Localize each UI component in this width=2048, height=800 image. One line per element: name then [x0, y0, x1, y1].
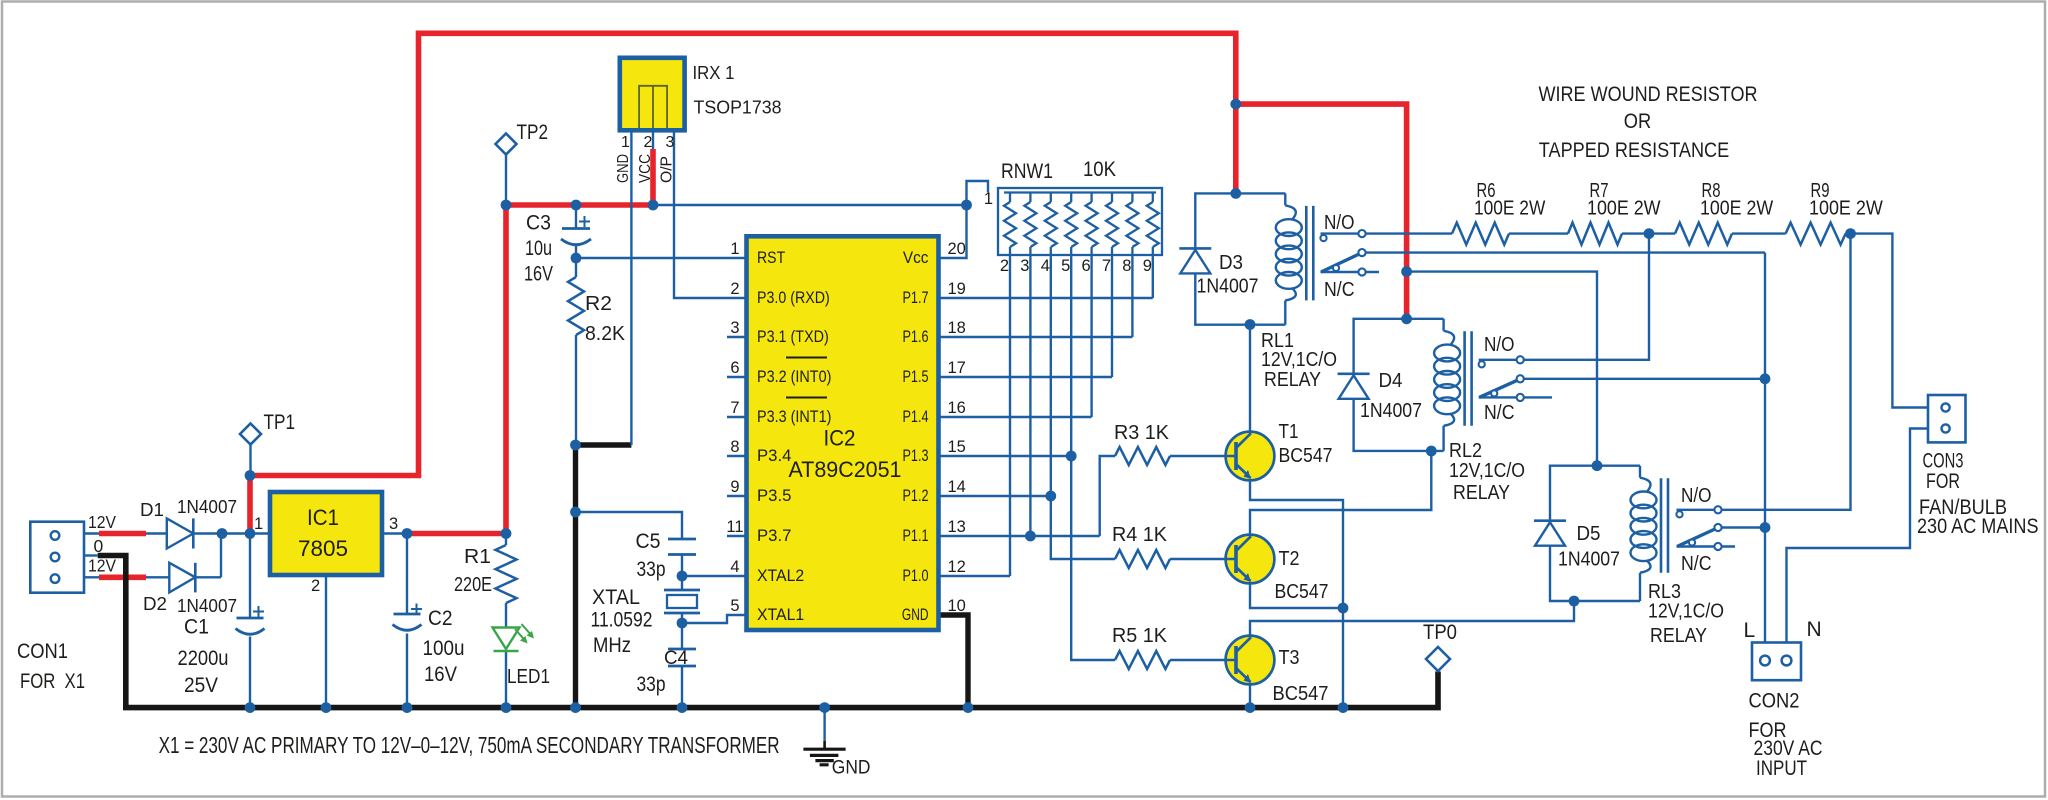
- svg-text:1: 1: [254, 515, 263, 533]
- wire: RL2 pole to L bus: [1524, 378, 1765, 380]
- svg-text:12V: 12V: [88, 556, 116, 576]
- wire: IRX pin3 O/P to IC2 P3.0 pin2: [674, 130, 747, 298]
- svg-text:2: 2: [644, 134, 653, 151]
- wire: RL1 N/O to R6-R9 chain: [1321, 234, 1929, 408]
- capacitor C4: [637, 648, 697, 696]
- capacitor C3: [524, 212, 591, 286]
- svg-text:P3.4: P3.4: [757, 447, 791, 465]
- wire: C3 node to IC2 RST pin1: [576, 257, 747, 259]
- junction node P1.2/RNW4: [1045, 491, 1056, 502]
- svg-text:WIRE WOUND RESISTOR: WIRE WOUND RESISTOR: [1539, 82, 1758, 106]
- svg-text:RELAY: RELAY: [1453, 482, 1510, 504]
- junction node D1/D2 cathodes: [217, 528, 228, 539]
- relay RL3 with diode D5: [1534, 466, 1724, 647]
- wire: T1 emitter to emitter bus: [1250, 480, 1343, 707]
- junction node RL3 bottom: [1569, 596, 1580, 607]
- svg-text:12V,1C/O: 12V,1C/O: [1449, 460, 1525, 482]
- wire: RL2 coil bottom to T2 collector: [1250, 451, 1431, 535]
- svg-text:BC547: BC547: [1275, 581, 1329, 603]
- junction node RNW1 common 5V: [961, 200, 972, 211]
- resistor R1 220E: [454, 545, 517, 603]
- svg-text:4: 4: [730, 558, 739, 576]
- junction node P1.3/RNW5: [1066, 451, 1077, 462]
- wire: D1 cathode to IC1 pin1: [193, 532, 270, 534]
- wire: IC2 P3.4 pin8 stub: [727, 455, 747, 457]
- junction node TP2: [501, 200, 512, 211]
- wire 5V: IC1 output to C2 node and up to TP2 node: [407, 205, 506, 534]
- junction node RL2 pole/L bus: [1760, 373, 1771, 384]
- resistor R7 100E 2W: [1568, 180, 1661, 245]
- connector CON1: [17, 512, 116, 693]
- svg-text:33p: 33p: [637, 558, 666, 581]
- note: wire wound resistor heading: [1539, 82, 1758, 162]
- svg-text:BC547: BC547: [1273, 683, 1329, 705]
- svg-text:100E 2W: 100E 2W: [1809, 198, 1883, 220]
- wire: R2 leads: [575, 258, 577, 445]
- svg-text:3: 3: [1020, 257, 1029, 275]
- svg-text:2: 2: [311, 577, 320, 595]
- wire 12V: CON1 pin3 red segment: [99, 574, 146, 580]
- svg-text:P3.5: P3.5: [757, 487, 791, 505]
- wire: IRX pin1 GND drop: [630, 130, 632, 445]
- resistor R4 1K: [1112, 524, 1170, 568]
- wire: R3 to T1 base: [1170, 455, 1225, 457]
- svg-text:P1.1: P1.1: [903, 527, 929, 545]
- wire: P1.2 row to RNW pin4 and down to R4: [939, 258, 1116, 559]
- junction node R2/IRX ground: [570, 440, 581, 451]
- capacitor C2: [393, 604, 465, 687]
- svg-text:20: 20: [948, 240, 966, 258]
- svg-text:TP2: TP2: [517, 120, 549, 144]
- svg-text:3: 3: [666, 134, 675, 151]
- wire: RL2 N/O up to R7/R8 junction: [1479, 234, 1649, 360]
- svg-text:N/O: N/O: [1681, 485, 1712, 507]
- junction node IC2 ground: [963, 702, 974, 713]
- transistor T1 BC547: [1226, 421, 1333, 480]
- svg-text:16: 16: [948, 399, 966, 417]
- svg-text:220E: 220E: [454, 574, 492, 596]
- svg-text:100u: 100u: [423, 637, 465, 660]
- junction node ground rail/R2: [570, 702, 581, 713]
- wire: R1 to LED1 to ground: [505, 534, 507, 708]
- svg-text:RST: RST: [757, 249, 785, 267]
- svg-text:0: 0: [94, 536, 104, 556]
- junction node P1.1/RNW3: [1025, 531, 1036, 542]
- svg-text:6: 6: [1082, 257, 1091, 275]
- wire: TP1 stem: [249, 445, 251, 476]
- wire: RL1 pole to L bus: [1366, 253, 1765, 643]
- resistor R2 8.2K: [568, 277, 626, 345]
- voltage regulator IC1 7805: [254, 492, 398, 595]
- wire 5V: TP2 node to IRX VCC: [506, 149, 653, 205]
- wire: RL1 coil bottom to T1 collector: [1249, 325, 1251, 432]
- svg-text:C4: C4: [664, 648, 688, 669]
- svg-text:8: 8: [730, 438, 739, 456]
- wire: C5 to XTAL2 pin4: [682, 555, 747, 591]
- junction node R7/R8 junction: [1644, 228, 1655, 239]
- svg-text:R1: R1: [464, 546, 491, 568]
- svg-text:XTAL2: XTAL2: [757, 567, 804, 585]
- wire: GND symbol stem: [823, 708, 825, 741]
- svg-text:P1.0: P1.0: [903, 567, 929, 585]
- wire: P1.5 to RNW pin7: [939, 258, 1113, 377]
- svg-text:VCC: VCC: [637, 154, 654, 183]
- svg-text:1: 1: [984, 190, 993, 208]
- junction node C4 ground: [677, 702, 688, 713]
- svg-text:230 AC MAINS: 230 AC MAINS: [1917, 515, 2039, 538]
- svg-text:10K: 10K: [1083, 158, 1116, 181]
- junction node RL2 bottom: [1426, 446, 1437, 457]
- junction node RL3 pole/L bus: [1760, 522, 1771, 533]
- svg-text:P1.5: P1.5: [903, 368, 929, 386]
- wire: IC2 P3.3 pin7 stub: [727, 416, 747, 418]
- wire: RL3 coil bottom to T3 collector: [1250, 601, 1574, 636]
- svg-text:FOR: FOR: [1926, 470, 1960, 493]
- svg-text:CON1: CON1: [17, 640, 68, 663]
- junction node TP1: [245, 470, 256, 481]
- svg-text:RNW1: RNW1: [1001, 160, 1053, 183]
- diode D2: [143, 563, 237, 616]
- svg-text:P1.4: P1.4: [903, 408, 929, 426]
- junction node RL3 top: [1592, 460, 1603, 471]
- svg-text:16V: 16V: [524, 263, 553, 286]
- svg-text:7: 7: [1102, 257, 1111, 275]
- svg-text:15: 15: [948, 438, 966, 456]
- svg-text:Vcc: Vcc: [903, 249, 929, 267]
- wire: C2 branch: [406, 534, 408, 708]
- resistor network RNW1 10K: [984, 158, 1162, 275]
- svg-text:D2: D2: [143, 593, 167, 614]
- svg-text:5: 5: [730, 597, 739, 615]
- svg-text:1N4007: 1N4007: [177, 496, 237, 517]
- svg-text:100E 2W: 100E 2W: [1474, 198, 1545, 220]
- wire 12V branch: to RL2 top: [1236, 104, 1407, 319]
- svg-text:D5: D5: [1577, 523, 1601, 545]
- svg-text:RELAY: RELAY: [1650, 625, 1707, 647]
- svg-text:C1: C1: [184, 616, 209, 639]
- svg-text:7: 7: [730, 399, 739, 417]
- svg-text:N/C: N/C: [1484, 402, 1515, 424]
- svg-text:33p: 33p: [637, 673, 666, 696]
- junction node RL2 top: [1401, 313, 1412, 324]
- svg-text:P3.3 (INT1): P3.3 (INT1): [757, 408, 831, 426]
- svg-text:D1: D1: [140, 499, 164, 520]
- svg-text:XTAL1: XTAL1: [757, 606, 804, 624]
- svg-text:1N4007: 1N4007: [177, 595, 237, 616]
- transistor T3 BC547: [1226, 636, 1329, 705]
- svg-text:N/C: N/C: [1324, 279, 1355, 301]
- junction node XTAL2: [677, 571, 688, 582]
- svg-text:3: 3: [730, 319, 739, 337]
- wire 12V rail: TP1 junction up-over to relays: [250, 33, 1236, 475]
- svg-text:TP1: TP1: [264, 410, 296, 434]
- wire: P1.6 to RNW pin8: [939, 258, 1133, 337]
- junction node emitter bus: [1338, 603, 1349, 614]
- svg-text:8: 8: [1122, 257, 1131, 275]
- wire: RL2 N/C stub: [1479, 396, 1552, 398]
- junction node C2 top: [402, 528, 413, 539]
- svg-text:5: 5: [1061, 257, 1070, 275]
- svg-text:2: 2: [1000, 257, 1009, 275]
- wire: C3 leads: [575, 205, 577, 258]
- junction node C3 top: [571, 200, 582, 211]
- ground GND symbol: [803, 741, 870, 779]
- svg-text:12: 12: [948, 558, 966, 576]
- junction node C2 ground: [402, 702, 413, 713]
- svg-text:1N4007: 1N4007: [1197, 276, 1259, 298]
- svg-text:19: 19: [948, 280, 966, 298]
- test point TP1: [240, 410, 295, 445]
- junction node IC1 input: [245, 528, 256, 539]
- wire: P1.4 to RNW pin6: [939, 258, 1092, 417]
- connector CON3: [1917, 395, 2039, 538]
- svg-text:TP0: TP0: [1423, 620, 1457, 644]
- svg-text:1N4007: 1N4007: [1360, 400, 1422, 422]
- svg-text:7805: 7805: [298, 536, 348, 561]
- svg-text:17: 17: [948, 359, 966, 377]
- svg-text:1N4007: 1N4007: [1558, 549, 1620, 571]
- svg-text:10: 10: [948, 597, 966, 615]
- svg-text:AT89C2051: AT89C2051: [789, 457, 902, 482]
- svg-text:T2: T2: [1279, 548, 1300, 570]
- svg-text:P3.1 (TXD): P3.1 (TXD): [757, 328, 829, 346]
- svg-text:9: 9: [1143, 257, 1152, 275]
- wire ground: R2/IRX GND drop: [576, 445, 632, 708]
- wire: P1.7 to RNW pin9: [939, 258, 1153, 298]
- svg-text:2200u: 2200u: [178, 647, 229, 670]
- svg-text:P3.2 (INT0): P3.2 (INT0): [757, 368, 831, 386]
- svg-text:13: 13: [948, 518, 966, 536]
- wire: IC1 pin3 output row: [382, 532, 407, 534]
- wire: CON2 N to CON3 bottom pin: [1787, 429, 1929, 643]
- junction node R9 output: [1845, 228, 1856, 239]
- junction node IRX VCC: [648, 200, 659, 211]
- svg-text:O/P: O/P: [659, 156, 676, 183]
- junction node C5 ground branch: [570, 507, 581, 518]
- svg-text:C5: C5: [636, 530, 661, 553]
- wire: CON1 pin2 0V stub: [83, 554, 98, 556]
- wire: IC2 P3.1 pin3 stub: [727, 336, 747, 338]
- junction node 12V split: [1230, 99, 1241, 110]
- capacitor C1: [178, 606, 265, 697]
- wire ground: CON1 0V to ground rail to TP0: [98, 556, 1438, 708]
- junction node GND symbol: [819, 702, 830, 713]
- resistor R5 1K: [1112, 625, 1170, 669]
- svg-text:IC1: IC1: [307, 505, 339, 530]
- svg-text:12V: 12V: [88, 512, 116, 532]
- svg-text:P1.7: P1.7: [903, 289, 929, 307]
- relay RL2 with diode D4: [1338, 319, 1525, 504]
- svg-text:3: 3: [389, 515, 398, 533]
- svg-text:N/C: N/C: [1681, 553, 1712, 575]
- resistor R6 100E 2W: [1452, 180, 1545, 245]
- LED LED1: [493, 624, 551, 688]
- svg-text:FOR X1: FOR X1: [20, 670, 85, 693]
- wire 5V: TP2 node to RNW1 common: [653, 204, 967, 206]
- wire: P1.3 row to RNW pin5 and down to R5: [939, 258, 1116, 660]
- wire: CON1 pin3 12V row: [83, 576, 169, 578]
- junction node LED1 ground: [501, 702, 512, 713]
- svg-text:P3.0 (RXD): P3.0 (RXD): [757, 289, 830, 307]
- svg-text:N: N: [1807, 618, 1822, 641]
- svg-text:R3 1K: R3 1K: [1114, 422, 1170, 444]
- svg-text:9: 9: [730, 478, 739, 496]
- svg-text:BC547: BC547: [1279, 445, 1333, 467]
- wire: IC2 P3.2 pin6 stub: [727, 376, 747, 378]
- wire 12V: TP1 junction down to IC1 input node: [247, 476, 253, 534]
- test point TP2: [496, 120, 549, 155]
- junction node RL1 bottom: [1245, 319, 1256, 330]
- wire: IC2 Vcc pin20 to RNW1 pin1: [939, 181, 989, 258]
- wire: CON1 pin1 12V row: [83, 532, 167, 534]
- svg-text:N/O: N/O: [1324, 212, 1355, 234]
- wire: RL3 pole to L bus: [1722, 526, 1765, 528]
- svg-text:6: 6: [730, 359, 739, 377]
- svg-text:R2: R2: [585, 293, 612, 315]
- svg-text:4: 4: [1041, 257, 1050, 275]
- wire: node to C1 and ground: [249, 534, 251, 708]
- svg-text:P3.7: P3.7: [757, 527, 791, 545]
- wire: T3 emitter to ground rail: [1249, 684, 1251, 707]
- svg-text:RL2: RL2: [1449, 440, 1482, 462]
- wire: C5 top to ground column: [576, 512, 683, 539]
- svg-text:11.0592: 11.0592: [591, 609, 653, 632]
- resistor R3 1K: [1114, 422, 1170, 465]
- wire ground: IC2 pin10 GND to rail: [939, 615, 969, 708]
- wire: R5 to T3 base: [1170, 659, 1226, 661]
- capacitor C5: [636, 530, 697, 581]
- wire: IC2 P3.7 pin11 stub: [727, 535, 747, 537]
- crystal XTAL 11.0592MHz: [591, 586, 701, 657]
- junction node T3 emitter ground: [1245, 702, 1256, 713]
- svg-text:T3: T3: [1279, 647, 1300, 669]
- wire: T2 emitter to emitter bus: [1250, 583, 1343, 608]
- svg-text:C3: C3: [526, 212, 551, 235]
- svg-text:D3: D3: [1219, 252, 1243, 274]
- svg-text:P1.2: P1.2: [903, 487, 929, 505]
- svg-text:18: 18: [948, 319, 966, 337]
- junction node RST: [571, 253, 582, 264]
- wire: C4 bottom to ground rail: [681, 667, 683, 708]
- wire: IRX pin2 stub: [652, 130, 654, 149]
- wire 12V branch: to RL3 top: [1407, 272, 1597, 466]
- svg-text:C2: C2: [428, 607, 453, 630]
- wire: D2 cathode up to D1 node: [195, 534, 221, 578]
- svg-text:100E 2W: 100E 2W: [1700, 198, 1773, 220]
- svg-text:P1.3: P1.3: [903, 447, 929, 465]
- svg-text:GND: GND: [615, 154, 632, 183]
- svg-text:IC2: IC2: [824, 426, 856, 451]
- wire: P1.0 to RNW pin2: [939, 258, 1011, 576]
- svg-text:IRX 1: IRX 1: [693, 62, 735, 83]
- svg-text:25V: 25V: [184, 674, 218, 697]
- wire: IC1 pin2 to ground rail: [325, 575, 327, 708]
- svg-text:P1.6: P1.6: [903, 328, 929, 346]
- svg-text:100E 2W: 100E 2W: [1587, 198, 1661, 220]
- wire: TP2 stem: [505, 154, 507, 205]
- svg-text:10u: 10u: [525, 237, 552, 260]
- svg-text:XTAL: XTAL: [592, 586, 640, 609]
- junction node C1 ground: [245, 702, 256, 713]
- svg-text:TAPPED RESISTANCE: TAPPED RESISTANCE: [1539, 138, 1729, 162]
- junction node RL1 top: [1230, 188, 1241, 199]
- svg-text:RELAY: RELAY: [1264, 369, 1321, 391]
- svg-text:LED1: LED1: [507, 666, 550, 688]
- svg-text:MHz: MHz: [593, 634, 631, 657]
- svg-text:11: 11: [726, 518, 743, 536]
- transistor T2 BC547: [1226, 535, 1329, 603]
- junction node IC1 output 5V: [501, 528, 512, 539]
- svg-text:16V: 16V: [424, 663, 457, 686]
- svg-text:INPUT: INPUT: [1756, 757, 1807, 780]
- svg-text:14: 14: [948, 478, 966, 496]
- svg-text:L: L: [1744, 619, 1756, 642]
- svg-text:12V,1C/O: 12V,1C/O: [1261, 349, 1337, 371]
- svg-text:TSOP1738: TSOP1738: [694, 97, 782, 118]
- junction node XTAL1: [677, 618, 688, 629]
- wire 12V: CON1 pin1 red segment: [99, 531, 146, 537]
- svg-text:OR: OR: [1624, 109, 1651, 133]
- wire: RL1 N/C stub: [1321, 271, 1380, 273]
- svg-text:1: 1: [730, 240, 739, 258]
- svg-text:R5 1K: R5 1K: [1112, 625, 1168, 647]
- test point TP0: [1423, 620, 1457, 671]
- diode D1: [140, 496, 237, 549]
- svg-text:GND: GND: [832, 758, 871, 779]
- IR receiver IRX1 TSOP1738: [615, 58, 782, 183]
- svg-text:12V,1C/O: 12V,1C/O: [1648, 601, 1724, 623]
- resistor R8 100E 2W: [1675, 180, 1773, 245]
- svg-text:R4 1K: R4 1K: [1112, 524, 1168, 546]
- microcontroller IC2 AT89C2051: [726, 236, 965, 630]
- svg-text:CON2: CON2: [1749, 690, 1800, 713]
- relay RL1 with diode D3: [1179, 193, 1365, 391]
- svg-text:8.2K: 8.2K: [585, 323, 626, 345]
- svg-text:2: 2: [730, 280, 739, 298]
- svg-text:X1 = 230V AC PRIMARY TO 12V–0–: X1 = 230V AC PRIMARY TO 12V–0–12V, 750mA…: [159, 732, 780, 758]
- wire: IC2 P3.5 pin9 stub: [727, 495, 747, 497]
- wire: P1.1 row to RNW pin3 and jog up to R3: [939, 258, 1116, 536]
- junction node IC1 pin2 ground: [321, 702, 332, 713]
- svg-text:T1: T1: [1279, 421, 1299, 443]
- wire: R4 to T2 base: [1170, 558, 1226, 560]
- connector CON2: [1744, 618, 1823, 780]
- junction node 12V to RL3: [1401, 266, 1412, 277]
- resistor R9 100E 2W: [1786, 180, 1883, 245]
- svg-text:D4: D4: [1379, 370, 1403, 392]
- svg-text:1: 1: [621, 134, 630, 151]
- wire: RL3 N/C stub: [1677, 545, 1736, 547]
- svg-text:GND: GND: [902, 606, 929, 624]
- junction node emitter bus ground: [1338, 702, 1349, 713]
- wire: XTAL to C4 and XTAL1 pin5 jog: [682, 613, 747, 649]
- wire: RL3 N/O to R9 output node: [1677, 234, 1851, 510]
- svg-text:N/O: N/O: [1484, 334, 1515, 356]
